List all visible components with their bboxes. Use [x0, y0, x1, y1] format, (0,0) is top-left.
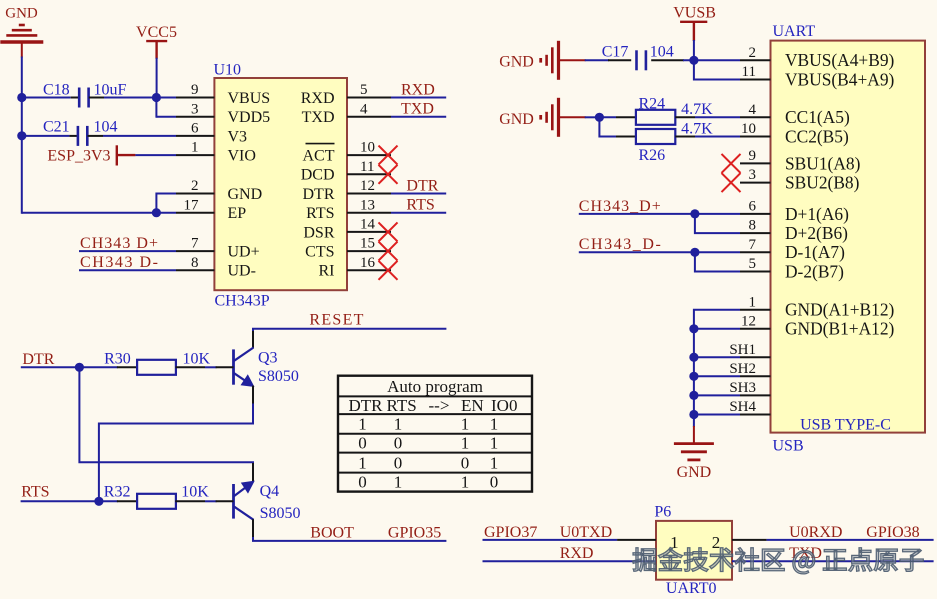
U10 pin 10 (ACT) — [303, 140, 392, 165]
svg-text:1: 1 — [461, 415, 470, 434]
svg-text:UD-: UD- — [228, 263, 256, 280]
svg-text:RXD: RXD — [401, 81, 435, 98]
svg-text:GND(B1+A12): GND(B1+A12) — [785, 319, 895, 339]
svg-text:RTS: RTS — [406, 197, 434, 214]
svg-text:11: 11 — [742, 64, 756, 80]
UART pin SH3 — [729, 380, 770, 396]
node (D+ junction) — [690, 209, 699, 218]
svg-text:U10: U10 — [214, 62, 242, 79]
node (VCC5 / C18 / pin 9) — [152, 93, 161, 102]
wire (left vertical GND rail) — [21, 57, 23, 214]
pin (Q3 base lead) — [216, 366, 234, 368]
wire (node up to U10 pin 2 GND) — [156, 194, 176, 213]
wire (VCC5 down to node) — [156, 58, 158, 99]
svg-text:CTS: CTS — [305, 244, 334, 261]
svg-text:R26: R26 — [639, 147, 666, 164]
pin (C21 right lead) — [88, 135, 104, 137]
U10 pin 9 (VBUS) — [176, 82, 270, 107]
ground symbol (CC side) — [541, 98, 559, 137]
wire (D- node to pin 5) — [695, 252, 740, 271]
wire (DTR net) — [21, 366, 118, 368]
wire (ESP_3V3 to U10 pin 1) — [135, 154, 176, 156]
svg-text:SH1: SH1 — [729, 342, 756, 358]
svg-text:CH343_D-: CH343_D- — [579, 236, 661, 253]
svg-text:VCC5: VCC5 — [136, 24, 177, 41]
svg-text:1: 1 — [358, 415, 367, 434]
pin (R32 right lead) — [175, 500, 205, 502]
pin (Q4 base lead) — [216, 500, 234, 502]
pin (R26 left lead) — [616, 136, 636, 138]
svg-text:VIO: VIO — [228, 148, 256, 165]
svg-text:Q3: Q3 — [258, 350, 278, 367]
UART pin 4 (CC1(A5)) — [740, 102, 850, 127]
U10 pin 6 (V3) — [176, 121, 247, 146]
svg-text:7: 7 — [749, 237, 757, 253]
node (CC junction) — [595, 113, 604, 122]
svg-text:VUSB: VUSB — [673, 5, 716, 22]
UART pin 1 (GND(A1+B12)) — [740, 294, 895, 319]
wire (GND chain branch) — [694, 328, 740, 330]
svg-text:CH343_D+: CH343_D+ — [579, 198, 661, 215]
svg-text:S8050: S8050 — [260, 505, 301, 522]
wire (GND rail to C21) — [22, 135, 70, 137]
svg-text:4.7K: 4.7K — [681, 120, 713, 137]
wire (U0TXD net) — [483, 539, 618, 541]
UART pin 2 (VBUS(A4+B9)) — [740, 45, 895, 70]
svg-text:0: 0 — [358, 473, 367, 492]
svg-text:U0RXD: U0RXD — [789, 524, 842, 541]
svg-text:9: 9 — [191, 82, 199, 98]
svg-text:1: 1 — [490, 433, 499, 452]
U10 pin 11 (DCD) — [301, 159, 391, 184]
wire (R26 to pin 10) — [695, 136, 740, 138]
svg-text:C21: C21 — [43, 119, 70, 136]
U10 pin 12 (DTR) — [303, 178, 392, 203]
UART pin SH2 — [729, 361, 770, 377]
wire (GND rail to C18) — [22, 97, 71, 99]
svg-text:CC1(A5): CC1(A5) — [785, 107, 850, 127]
table data rows — [358, 415, 498, 492]
svg-text:104: 104 — [94, 119, 118, 136]
wire (RXD net) — [483, 560, 657, 562]
wire (net DTR) — [391, 193, 446, 195]
capacitor C17 symbol — [637, 50, 646, 70]
wire (RTS net) — [21, 500, 118, 502]
svg-text:UART: UART — [773, 23, 816, 40]
svg-text:DTR: DTR — [349, 396, 384, 415]
svg-text:RTS: RTS — [387, 396, 417, 415]
U10 pin 4 (TXD) — [302, 101, 391, 126]
wire (GND stub, red) — [21, 42, 23, 58]
U10 pin 13 (RTS) — [306, 197, 391, 222]
svg-text:DTR: DTR — [303, 186, 335, 203]
wire (node to U10 pin 9) — [156, 97, 176, 99]
svg-text:0: 0 — [490, 473, 499, 492]
svg-text:1: 1 — [749, 294, 757, 310]
no-connect X (SBU1) — [722, 154, 741, 173]
svg-text:Auto program: Auto program — [387, 377, 483, 396]
svg-text:GND: GND — [5, 6, 38, 22]
svg-text:DTR: DTR — [406, 177, 438, 194]
svg-text:RXD: RXD — [560, 545, 594, 562]
connector P6 body — [656, 521, 732, 580]
svg-text:P6: P6 — [654, 504, 671, 521]
svg-text:D+2(B6): D+2(B6) — [785, 223, 848, 243]
pin (R26 right lead) — [675, 136, 695, 138]
svg-text:9: 9 — [749, 148, 757, 164]
svg-text:GND: GND — [228, 186, 263, 203]
node (VUSB junction) — [689, 56, 698, 65]
svg-text:3: 3 — [191, 101, 199, 117]
svg-text:0: 0 — [358, 433, 367, 452]
svg-text:15: 15 — [360, 236, 375, 252]
U10 pin 5 (RXD) — [301, 82, 391, 107]
svg-text:1: 1 — [191, 140, 199, 156]
wire (C18 to VCC5 node) — [104, 97, 157, 99]
svg-text:13: 13 — [360, 197, 375, 213]
node (GND chain junction) — [689, 410, 698, 419]
pin (P6 pin 2 lead) — [732, 539, 767, 541]
no-connect X — [379, 261, 398, 280]
node (DTR junction) — [75, 363, 84, 372]
svg-text:1: 1 — [490, 453, 499, 472]
power port VUSB bar symbol — [680, 22, 707, 41]
svg-text:GND: GND — [499, 111, 534, 128]
wire (gnd stem red) — [693, 426, 695, 444]
wire (node to R24) — [599, 116, 616, 118]
no-connect X — [379, 242, 398, 261]
svg-text:0: 0 — [394, 453, 403, 472]
wire (RESET to Q3 collector) — [253, 329, 446, 332]
pin (R30 right lead) — [176, 366, 206, 368]
wire (gnd to CC node) — [585, 116, 601, 118]
svg-text:10: 10 — [741, 121, 756, 137]
svg-text:VDD5: VDD5 — [228, 109, 271, 126]
node (GND chain junction) — [689, 324, 698, 333]
wire (GND chain branch) — [694, 414, 740, 416]
wire (node down to pin 3 row) — [155, 98, 157, 118]
pin (C17 right lead) — [651, 59, 684, 61]
svg-text:1: 1 — [394, 473, 403, 492]
UART pin 7 (D-1(A7)) — [740, 237, 845, 262]
UART pin 5 (D-2(B7)) — [740, 256, 844, 281]
svg-text:TXD: TXD — [302, 109, 335, 126]
svg-text:1: 1 — [461, 473, 470, 492]
svg-text:TXD: TXD — [401, 101, 434, 118]
svg-text:Q4: Q4 — [260, 483, 280, 500]
svg-text:RXD: RXD — [301, 90, 335, 107]
no-connect X (SBU2) — [722, 173, 741, 192]
svg-text:GPIO35: GPIO35 — [388, 525, 441, 542]
wire (GND chain branch) — [694, 394, 740, 396]
UART pin 8 (D+2(B6)) — [740, 218, 848, 243]
wire (U0RXD net) — [767, 539, 934, 541]
svg-text:GND: GND — [677, 464, 712, 481]
svg-text:1: 1 — [490, 415, 499, 434]
svg-text:10: 10 — [360, 140, 375, 156]
U10 pin 1 (VIO) — [176, 140, 256, 165]
wire (GND chain branch) — [694, 356, 740, 358]
no-connect X — [379, 146, 398, 165]
svg-text:D-1(A7): D-1(A7) — [785, 242, 845, 262]
wire (VUSB down) — [693, 40, 695, 61]
UART pin 6 (D+1(A6)) — [740, 199, 849, 224]
svg-text:SBU2(B8): SBU2(B8) — [785, 173, 860, 193]
svg-text:10K: 10K — [181, 483, 209, 500]
svg-text:USB TYPE-C: USB TYPE-C — [800, 417, 891, 434]
svg-text:U0TXD: U0TXD — [560, 524, 612, 541]
op-amp/IC U10 body (CH343P) — [214, 78, 347, 290]
svg-text:RI: RI — [319, 263, 335, 280]
UART pin 9 (SBU1(A8)) — [740, 148, 861, 173]
wire (node down to R26) — [599, 117, 616, 136]
resistor R30 body — [137, 360, 176, 375]
node (RTS junction) — [94, 497, 103, 506]
svg-text:0: 0 — [461, 453, 470, 472]
U10 pin 2 (GND) — [176, 178, 262, 203]
svg-text:UD+: UD+ — [228, 244, 260, 261]
wire (CH343_D- to U10 pin 8) — [79, 269, 176, 271]
svg-text:DCD: DCD — [301, 167, 335, 184]
no-connect X — [379, 222, 398, 241]
wire (gnd stub red) — [559, 116, 586, 118]
svg-text:4.7K: 4.7K — [681, 101, 713, 118]
svg-text:2: 2 — [712, 533, 721, 552]
svg-text:R30: R30 — [104, 351, 131, 368]
svg-text:8: 8 — [191, 255, 199, 271]
svg-text:ACT: ACT — [303, 148, 335, 165]
svg-text:14: 14 — [360, 217, 376, 233]
svg-text:EN: EN — [461, 396, 484, 415]
svg-text:12: 12 — [741, 313, 756, 329]
svg-text:SH4: SH4 — [729, 399, 756, 415]
svg-text:RTS: RTS — [306, 205, 334, 222]
UART pin SH4 — [729, 399, 770, 415]
svg-text:0: 0 — [394, 433, 403, 452]
svg-text:4: 4 — [749, 102, 757, 118]
wire (gnd to C17) — [585, 59, 609, 61]
svg-text:GND: GND — [499, 53, 534, 70]
transistor Q4 S8050 (NPN) — [234, 463, 255, 538]
svg-text:17: 17 — [184, 197, 200, 213]
svg-text:7: 7 — [191, 236, 199, 252]
wire (node down to pin 11) — [694, 60, 740, 79]
wire (D+ node to pin 8) — [695, 214, 740, 233]
svg-text:-->: --> — [429, 396, 450, 415]
svg-text:RTS: RTS — [21, 484, 49, 501]
svg-text:2: 2 — [749, 45, 757, 61]
wire (R32 to Q4 base) — [205, 500, 217, 502]
node (GND rail / C21) — [17, 131, 26, 140]
svg-text:SH3: SH3 — [729, 380, 756, 396]
node (GND chain junction) — [689, 372, 698, 381]
wire (to U10 pin 3) — [156, 116, 176, 118]
svg-text:10K: 10K — [183, 351, 211, 368]
node (D- junction) — [690, 248, 699, 257]
UART pin 3 (SBU2(B8)) — [740, 167, 860, 192]
svg-text:GND(A1+B12): GND(A1+B12) — [785, 300, 895, 320]
pin (R30 left lead) — [117, 366, 138, 368]
transistor Q3 S8050 (NPN) — [234, 331, 255, 405]
svg-text:1: 1 — [358, 453, 367, 472]
U10 pin 14 (DSR) — [303, 217, 391, 242]
node (EP junction) — [152, 208, 161, 217]
svg-text:C18: C18 — [43, 81, 70, 98]
svg-text:12: 12 — [360, 178, 375, 194]
svg-text:1: 1 — [461, 433, 470, 452]
pin (R24 right lead) — [675, 116, 695, 118]
svg-text:S8050: S8050 — [258, 368, 299, 385]
svg-text:V3: V3 — [228, 128, 248, 145]
wire (TXD net) — [732, 560, 934, 562]
svg-text:5: 5 — [749, 256, 757, 272]
wire (GND chain vertical) — [694, 310, 740, 427]
svg-text:BOOT: BOOT — [310, 525, 354, 542]
svg-text:8: 8 — [749, 218, 757, 234]
svg-text:DSR: DSR — [303, 224, 334, 241]
connector UART body (USB TYPE-C) — [771, 41, 926, 433]
svg-text:11: 11 — [360, 159, 374, 175]
svg-text:R32: R32 — [104, 483, 131, 500]
svg-text:USB: USB — [773, 437, 804, 454]
svg-text:6: 6 — [749, 199, 757, 215]
svg-text:EP: EP — [228, 205, 247, 222]
svg-text:10uF: 10uF — [94, 81, 127, 98]
svg-text:SH2: SH2 — [729, 361, 756, 377]
svg-text:RESET: RESET — [309, 312, 363, 329]
U10 pin 8 (UD-) — [176, 255, 256, 280]
node (GND chain junction) — [689, 391, 698, 400]
svg-text:16: 16 — [360, 255, 376, 271]
svg-text:CH343 D-: CH343 D- — [80, 254, 158, 271]
svg-text:GPIO38: GPIO38 — [866, 524, 919, 541]
svg-text:CH343 D+: CH343 D+ — [80, 235, 158, 252]
svg-text:VBUS: VBUS — [228, 90, 271, 107]
wire (Q3 emitter to RTS node) — [99, 404, 253, 503]
capacitor C21 symbol — [78, 126, 87, 146]
pin (C18 right lead) — [89, 97, 104, 99]
wire (GND chain branch) — [694, 375, 740, 377]
capacitor C18 symbol — [79, 88, 88, 108]
wire (R24 to pin 4) — [695, 116, 740, 118]
wire (C17 to VBUS node/pin 2) — [683, 59, 740, 61]
svg-text:VBUS(A4+B9): VBUS(A4+B9) — [785, 50, 895, 70]
svg-text:4: 4 — [360, 101, 368, 117]
svg-text:C17: C17 — [602, 43, 629, 60]
resistor R32 body — [137, 494, 176, 509]
watermark 掘金技术社区 @正点原子 — [633, 547, 924, 574]
node (GND rail / C18) — [17, 93, 26, 102]
U10 pin 7 (UD+) — [176, 236, 260, 261]
no-connect X — [379, 165, 398, 184]
wire (GND rail bottom to EP node) — [22, 212, 157, 214]
pin (C17 left lead) — [608, 59, 631, 61]
power port VCC5 bar symbol — [146, 41, 167, 59]
svg-text:ESP_3V3: ESP_3V3 — [47, 148, 110, 165]
U10 pin 16 (RI) — [319, 255, 392, 280]
wire (Q4 collector to BOOT) — [253, 537, 446, 541]
wire (net RXD) — [391, 97, 446, 99]
pin (R24 left lead) — [616, 116, 636, 118]
pin (C18 left lead) — [71, 97, 79, 99]
svg-text:6: 6 — [191, 121, 199, 137]
ground symbol (C17 side) — [541, 41, 559, 80]
wire (R30 to Q3 base) — [205, 366, 217, 368]
resistor R24 body — [636, 110, 675, 125]
UART pin 10 (CC2(B5)) — [740, 121, 849, 146]
wire (net RTS) — [391, 212, 446, 214]
svg-text:D+1(A6): D+1(A6) — [785, 204, 849, 224]
U10 pin 3 (VDD5) — [176, 101, 270, 126]
svg-text:IO0: IO0 — [491, 396, 517, 415]
wire (C21 to U10 pin 6) — [103, 135, 176, 137]
wire (CH343_D- to pin 7) — [579, 251, 740, 253]
U10 pin 15 (CTS) — [305, 236, 391, 261]
svg-text:1: 1 — [394, 415, 403, 434]
svg-text:CC2(B5): CC2(B5) — [785, 126, 849, 146]
svg-text:D-2(B7): D-2(B7) — [785, 261, 844, 281]
svg-text:GPIO37: GPIO37 — [484, 524, 537, 541]
svg-text:5: 5 — [360, 82, 368, 98]
U10 pin 17 (EP) — [176, 197, 246, 222]
svg-text:SBU1(A8): SBU1(A8) — [785, 153, 861, 173]
node (GND chain junction) — [689, 353, 698, 362]
wire (DTR node to Q4 emitter) — [79, 367, 253, 464]
wire (gnd stub red) — [559, 59, 586, 61]
svg-text:3: 3 — [749, 167, 757, 183]
pin (C21 left lead) — [69, 135, 77, 137]
pin (R32 left lead) — [117, 500, 137, 502]
wire (net TXD) — [391, 116, 446, 118]
pin (P6 pin 1 lead) — [617, 539, 656, 541]
UART pin 12 (GND(B1+A12)) — [740, 313, 895, 338]
resistor R26 body — [636, 129, 675, 144]
ground GND (top-left) earth symbol — [0, 25, 43, 42]
power port ESP_3V3 bar symbol — [117, 145, 136, 165]
svg-text:DTR: DTR — [22, 351, 54, 368]
UART pin SH1 — [729, 342, 770, 358]
ground GND earth symbol (USB shield) — [674, 444, 714, 460]
wire (CH343_D+ to U10 pin 7) — [79, 250, 176, 252]
svg-text:CH343P: CH343P — [215, 293, 270, 310]
svg-text:UART0: UART0 — [666, 580, 717, 594]
svg-text:2: 2 — [191, 178, 199, 194]
wire (node to U10 pin 17 EP) — [156, 212, 176, 214]
svg-text:104: 104 — [650, 43, 674, 60]
table Auto program — [338, 376, 532, 492]
svg-text:VBUS(B4+A9): VBUS(B4+A9) — [785, 69, 895, 89]
UART pin 11 (VBUS(B4+A9)) — [740, 64, 895, 89]
wire (CH343_D+ to pin 6) — [579, 213, 740, 215]
